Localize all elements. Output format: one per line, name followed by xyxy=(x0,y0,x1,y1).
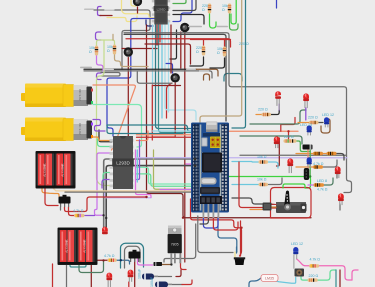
wire gray led4 leg xyxy=(336,174,338,178)
wire blue U2pin-U1 xyxy=(107,19,154,137)
wire cyan v1 xyxy=(161,25,163,118)
resistor R9 4.7k xyxy=(73,209,85,217)
wire yellow spk xyxy=(234,252,236,257)
LED L13 blue xyxy=(293,247,298,269)
resistor R6 4.7k xyxy=(313,152,337,166)
node J1 xyxy=(102,214,104,216)
wire dgreen r8r xyxy=(324,178,333,185)
resistor R3 10k xyxy=(257,155,268,164)
servo M3 xyxy=(276,191,307,214)
wire gray lead join xyxy=(94,9,104,11)
wire sgreen U1 l1 xyxy=(98,139,110,147)
lead right pair xyxy=(188,26,228,28)
wire gray C4 link xyxy=(137,72,172,83)
svg-text:Ω: Ω xyxy=(89,50,92,54)
wire palegreen long v xyxy=(97,40,110,186)
LED L4 red xyxy=(335,166,341,178)
wire mint M1b xyxy=(93,105,142,148)
wire gray s2 frame xyxy=(125,246,141,268)
wire lcyan v6 xyxy=(167,19,169,113)
svg-text:10k Ω: 10k Ω xyxy=(257,178,267,182)
wire dred chipleg a xyxy=(156,25,158,45)
wire red r18 top xyxy=(203,40,205,45)
wire darkred C3 down xyxy=(127,58,129,137)
wire darkred C4 down xyxy=(174,83,176,136)
capacitor C6 (electrolytic, side) xyxy=(155,282,172,287)
wire bgreen right long xyxy=(229,177,311,189)
svg-text:LED 12: LED 12 xyxy=(291,242,303,246)
svg-text:220 Ω: 220 Ω xyxy=(239,42,249,46)
wire teal v5 xyxy=(159,25,192,133)
wire teal br v xyxy=(335,270,337,287)
wire yellow A xyxy=(122,0,155,18)
wire red bp3 xyxy=(137,136,192,138)
svg-text:DC 3-6V: DC 3-6V xyxy=(78,123,82,135)
wire magenta U1r xyxy=(136,150,152,198)
svg-text:18650 3.7V: 18650 3.7V xyxy=(61,163,65,177)
wire orange M2 xyxy=(93,137,110,141)
svg-text:4.7k Ω: 4.7k Ω xyxy=(313,162,324,166)
wire gray big loop xyxy=(124,33,352,193)
wire orange r7l xyxy=(296,166,313,168)
wire purple M2 xyxy=(93,120,105,132)
svg-text:Ω: Ω xyxy=(222,8,225,12)
svg-text:LED 13: LED 13 xyxy=(300,123,312,127)
transistor Q1 (TO-92 side) xyxy=(304,168,309,180)
regulator U3 7805 xyxy=(168,226,182,264)
wire gray U2 right xyxy=(173,0,196,11)
LED L2 red xyxy=(303,93,309,108)
wire green r20 hook xyxy=(297,141,311,152)
wire darkred main xyxy=(147,25,312,218)
wire red drop r20 xyxy=(288,131,290,139)
wire brown bus1b xyxy=(196,69,218,76)
wire sky bp1 xyxy=(153,130,192,132)
wire red chipleg b xyxy=(159,25,161,42)
motor M2 xyxy=(21,118,93,142)
wire black r18 loop xyxy=(190,57,204,66)
wire black v mid xyxy=(170,30,177,59)
wire sgreen r13l xyxy=(301,277,308,281)
wire darkred stub TL xyxy=(100,15,112,17)
wire green U2 right xyxy=(173,0,186,4)
wire tan stub xyxy=(112,34,114,40)
wire gray led5 leg xyxy=(339,204,341,210)
wire violet r14 down xyxy=(97,56,104,72)
resistor R19 vertical xyxy=(217,47,226,57)
svg-text:100uF: 100uF xyxy=(138,268,142,279)
wire steel spk stub xyxy=(236,247,238,253)
wire blue v topright xyxy=(276,0,278,8)
wire orange r1l xyxy=(256,114,262,116)
wire red hbus2 xyxy=(191,39,231,41)
lead mid-left xyxy=(80,67,114,71)
wire dteal box bot xyxy=(107,125,183,134)
wire gray s1 l xyxy=(60,207,62,210)
node J3 xyxy=(194,158,197,161)
wire salmon M1 xyxy=(93,85,135,150)
wire dred led1 down xyxy=(277,138,280,166)
wire bgreen servo top xyxy=(283,184,305,188)
wire black bus1 xyxy=(84,68,196,70)
wire gray spk top xyxy=(198,216,233,253)
resistor R5 4.7k xyxy=(313,152,323,155)
node J5 xyxy=(120,259,122,261)
IC U2 L293D (top, cut off) xyxy=(152,0,170,25)
svg-text:LED 12: LED 12 xyxy=(322,113,334,117)
wire dred bt2-r10 xyxy=(97,259,108,261)
wire brown led10 loop xyxy=(321,119,330,133)
wire dred s2 down xyxy=(134,259,136,287)
wire red c6 lead xyxy=(182,280,192,285)
resistor R4 10k xyxy=(257,178,268,187)
wire cyan r3 xyxy=(232,161,258,164)
wire black led1-r1 xyxy=(271,110,279,115)
wire black U2 right xyxy=(173,15,204,25)
resistor R16 vertical xyxy=(202,4,211,14)
node J4 xyxy=(194,164,197,167)
wire pink right xyxy=(319,266,352,280)
wire dgray servo sig xyxy=(232,198,262,204)
resistor R12 4.7k xyxy=(309,258,320,268)
capacitor C4 (top view) xyxy=(171,73,180,82)
motor M1 xyxy=(21,84,93,108)
wire salmon v right xyxy=(307,150,309,168)
wire red C4 left xyxy=(167,83,173,118)
resistor R13 220 xyxy=(308,274,319,282)
wire blue C4 top xyxy=(166,64,173,74)
LED L6 red xyxy=(102,227,108,235)
wire blue U2 right up xyxy=(173,0,192,22)
wire cyan v U1r xyxy=(136,150,138,182)
wire gray bus2 xyxy=(84,71,212,78)
wire sgreen U1r-bp xyxy=(137,174,197,186)
wire red r19 top xyxy=(224,40,226,46)
svg-text:4.7k Ω: 4.7k Ω xyxy=(73,209,84,213)
wire dgray r6r xyxy=(337,154,345,161)
wire dred top bus xyxy=(145,44,191,64)
resistor R14 vertical xyxy=(89,46,98,56)
wire dgreen bt2 loop xyxy=(79,261,104,273)
lead top-left2 xyxy=(105,9,115,11)
wire red v mid xyxy=(151,85,153,140)
wire dteal s2 frame xyxy=(121,243,144,268)
wire red s1 mid xyxy=(65,197,147,212)
resistor R7 xyxy=(313,165,323,168)
wire green loop r17 xyxy=(230,14,239,30)
wire orange bt1 xyxy=(42,189,59,197)
wire red servo lead xyxy=(272,207,281,209)
wire dgray r2r xyxy=(319,122,324,124)
LED L1 red xyxy=(275,91,281,110)
resistor R18 vertical xyxy=(196,46,205,56)
svg-text:7805: 7805 xyxy=(171,243,179,247)
speaker SP1 xyxy=(234,257,245,265)
capacitor C2 (top view) xyxy=(180,23,189,32)
wire gray bus C xyxy=(65,191,196,193)
wire violet r8l xyxy=(308,184,314,186)
svg-text:L293D: L293D xyxy=(116,161,130,166)
capacitor C1 (top view) xyxy=(133,0,142,6)
wire black r19 loop xyxy=(210,58,225,68)
wire lightcyan v2 xyxy=(165,25,196,120)
svg-text:4.7k Ω: 4.7k Ω xyxy=(104,254,115,258)
wire dgray bp pin2 xyxy=(200,218,208,224)
svg-text:10k Ω: 10k Ω xyxy=(257,155,267,159)
wire orange r2l xyxy=(298,122,309,124)
wire teal bt2 loop xyxy=(70,264,86,267)
wire gray c6 lead xyxy=(166,284,182,286)
wire gray spk-d1 xyxy=(164,224,196,262)
wire red bt1-s1 xyxy=(45,189,58,206)
wire palegreen loop xyxy=(97,40,115,45)
wire purple r9 out xyxy=(85,215,95,217)
node J6 xyxy=(102,259,104,261)
wire magenta bp stub xyxy=(186,163,191,165)
wire green loop r16 xyxy=(210,14,217,28)
wire gray r7r xyxy=(323,160,337,167)
svg-text:100uF: 100uF xyxy=(150,276,154,287)
svg-text:4.7k Ω: 4.7k Ω xyxy=(317,188,328,192)
resistor R15 vertical xyxy=(107,45,116,55)
svg-text:LED 8: LED 8 xyxy=(317,179,327,183)
svg-text:DC 3-6V: DC 3-6V xyxy=(78,89,82,101)
wire dteal loop mid xyxy=(224,74,242,82)
svg-text:18650 3.7V: 18650 3.7V xyxy=(43,163,47,177)
wire dred bt2 down xyxy=(90,264,92,287)
switch S1 xyxy=(59,195,71,207)
wire gray TL loop xyxy=(114,10,150,69)
wire gray c5 lead xyxy=(154,276,172,278)
wire steel spk xyxy=(218,216,237,252)
wire purple loop TL2 xyxy=(96,32,102,40)
wire red h top right xyxy=(281,118,295,125)
switch S2 xyxy=(129,250,141,262)
svg-text:Ω: Ω xyxy=(107,49,110,53)
wire dred h4 xyxy=(153,85,181,87)
diode D2 (black cylinder) xyxy=(303,145,313,150)
wire cyan v4 xyxy=(156,25,192,129)
wire red servo feed xyxy=(239,162,262,208)
svg-text:18650 3.7V: 18650 3.7V xyxy=(65,239,69,253)
wire purple loop TL3 xyxy=(97,73,102,80)
svg-text:LM35: LM35 xyxy=(265,277,274,281)
wire red servo frame xyxy=(271,188,312,219)
LED L9 red xyxy=(274,136,280,148)
wire darkred C2 down xyxy=(184,33,186,262)
LED L10 blue xyxy=(324,117,329,127)
LED L7 red xyxy=(106,273,112,287)
servo connector xyxy=(263,203,277,211)
wire gray bt2 down xyxy=(66,264,68,287)
wire orange r56 xyxy=(323,153,327,155)
wire red bp pin3 xyxy=(213,218,238,230)
wire mint U1r-bp xyxy=(137,167,197,184)
LED L5 red xyxy=(338,193,344,205)
svg-text:L293D: L293D xyxy=(157,7,167,11)
LED L8 red xyxy=(128,270,134,282)
IC U1 L293D (center) xyxy=(110,136,134,189)
wire blue bp pins xyxy=(203,218,218,228)
wire gray bus A xyxy=(104,159,195,227)
svg-text:Ω: Ω xyxy=(196,50,199,54)
wire salmon U1r xyxy=(137,131,149,141)
wire dgreen led2 xyxy=(250,110,306,124)
svg-text:Ω: Ω xyxy=(202,8,205,12)
wire brown loop mid xyxy=(204,74,210,80)
wire sky v3 xyxy=(152,25,154,131)
wire gray small box xyxy=(101,73,120,77)
node J2 xyxy=(105,217,107,219)
wire salmon right bus xyxy=(229,130,298,132)
svg-text:220 Ω: 220 Ω xyxy=(308,116,318,120)
resistor R8 xyxy=(314,179,328,192)
svg-text:Ω: Ω xyxy=(217,51,220,55)
wire lav right long xyxy=(229,157,347,159)
svg-text:220 Ω: 220 Ω xyxy=(284,135,294,139)
wire steel lm35 xyxy=(249,278,261,287)
wire cyan lm35 xyxy=(271,278,296,284)
wire gray bus B xyxy=(106,166,195,227)
wire dred br v xyxy=(339,270,341,287)
node J11 xyxy=(240,227,242,229)
wire green v servo xyxy=(309,150,311,176)
wire purple U1 l3 xyxy=(102,180,110,189)
wire salmon bp2 xyxy=(137,134,192,136)
wire yellow B xyxy=(107,16,137,22)
wire red h5 xyxy=(152,136,175,138)
LED L12 blue xyxy=(307,157,312,167)
wire dred v7 xyxy=(180,32,182,68)
resistor R17 vertical xyxy=(222,4,231,14)
wire red 7805 leg3 xyxy=(181,253,187,270)
trimpot/sensor bottom right xyxy=(295,269,305,277)
wire purple led2 leg xyxy=(305,108,307,120)
wire brown d1-7805 xyxy=(161,264,172,266)
wire orange servo xyxy=(250,209,262,211)
wire steel r10 out xyxy=(117,260,130,264)
wire gray r4b xyxy=(269,178,283,185)
wire purple loop TL xyxy=(98,7,102,16)
battery holder BT1 (2x18650) xyxy=(36,151,76,189)
resistor R20 220 xyxy=(284,135,297,143)
svg-text:220 Ω: 220 Ω xyxy=(309,274,319,278)
wire cyan r3b xyxy=(269,162,279,168)
wire orange r5l xyxy=(296,153,313,155)
LED L3 red xyxy=(287,158,293,173)
wire dgray bus xyxy=(124,34,226,121)
wire black U1 topleft xyxy=(99,130,112,142)
wire pink br xyxy=(352,270,358,280)
wire lav bp l xyxy=(136,157,191,159)
lead pair on bus xyxy=(186,69,209,72)
svg-text:4.7k Ω: 4.7k Ω xyxy=(310,258,321,262)
wire sgreen U1 l2 xyxy=(103,173,110,183)
svg-text:18650 3.7V: 18650 3.7V xyxy=(83,239,87,253)
resistor R10 4.7k xyxy=(104,254,117,262)
wire cyan r4 xyxy=(232,184,258,186)
resistor R2 220 xyxy=(308,116,319,125)
wire dteal v right xyxy=(232,0,246,128)
wire dteal box top xyxy=(107,125,191,131)
wire red bus2 xyxy=(191,199,242,256)
wire pink led13 xyxy=(297,259,309,266)
wire olive v xyxy=(154,150,197,189)
node J10 xyxy=(145,196,147,198)
wire red stub l9 xyxy=(280,125,282,132)
wire wheat bus xyxy=(56,190,196,192)
wire dred c5b xyxy=(176,270,181,277)
wire wheat bt1 xyxy=(54,189,57,191)
node J12 xyxy=(309,175,311,177)
svg-text:220 Ω: 220 Ω xyxy=(258,108,268,112)
resistor R1 220 xyxy=(258,108,271,117)
node J8 xyxy=(182,217,184,219)
wire sgreen r13r xyxy=(318,270,336,280)
wire green v right xyxy=(231,0,236,24)
wire navy corner xyxy=(146,20,153,26)
node J9 xyxy=(287,130,289,132)
wire lavender U1 xyxy=(105,192,152,198)
blue pill STM32 board xyxy=(191,122,229,219)
wire dred U2-C4 xyxy=(170,25,172,73)
wire purple led1 leg xyxy=(278,104,280,110)
label LM35 xyxy=(261,275,278,282)
wire magenta s2-d1 xyxy=(138,259,153,265)
lead top-left xyxy=(84,8,94,10)
battery holder BT2 (2x18650) xyxy=(58,228,98,266)
wire dred h3 xyxy=(122,48,157,50)
wire red s1 r xyxy=(69,207,75,216)
node J7 xyxy=(170,263,172,265)
wire violet U1-LED6 xyxy=(95,153,110,215)
capacitor C5 (electrolytic, side) xyxy=(142,274,158,280)
wire red top bus xyxy=(126,39,231,47)
wire red bt2 down xyxy=(52,264,54,287)
wire dgreen cyl xyxy=(240,136,302,144)
capacitor C3 (top view) xyxy=(124,47,133,56)
diode D1 xyxy=(154,262,163,266)
wire gray long right xyxy=(240,154,347,156)
wire tan r15 down xyxy=(115,55,149,67)
wire purple v U1r xyxy=(137,140,140,180)
LED L11 blue xyxy=(307,125,312,135)
wire darkred C1 down xyxy=(137,7,139,13)
wire red led8 leg xyxy=(128,282,130,287)
wire tan v right xyxy=(200,0,242,122)
wire red spk xyxy=(240,221,242,256)
wire violet bp stub xyxy=(160,189,191,191)
wire yellow C xyxy=(131,0,136,6)
